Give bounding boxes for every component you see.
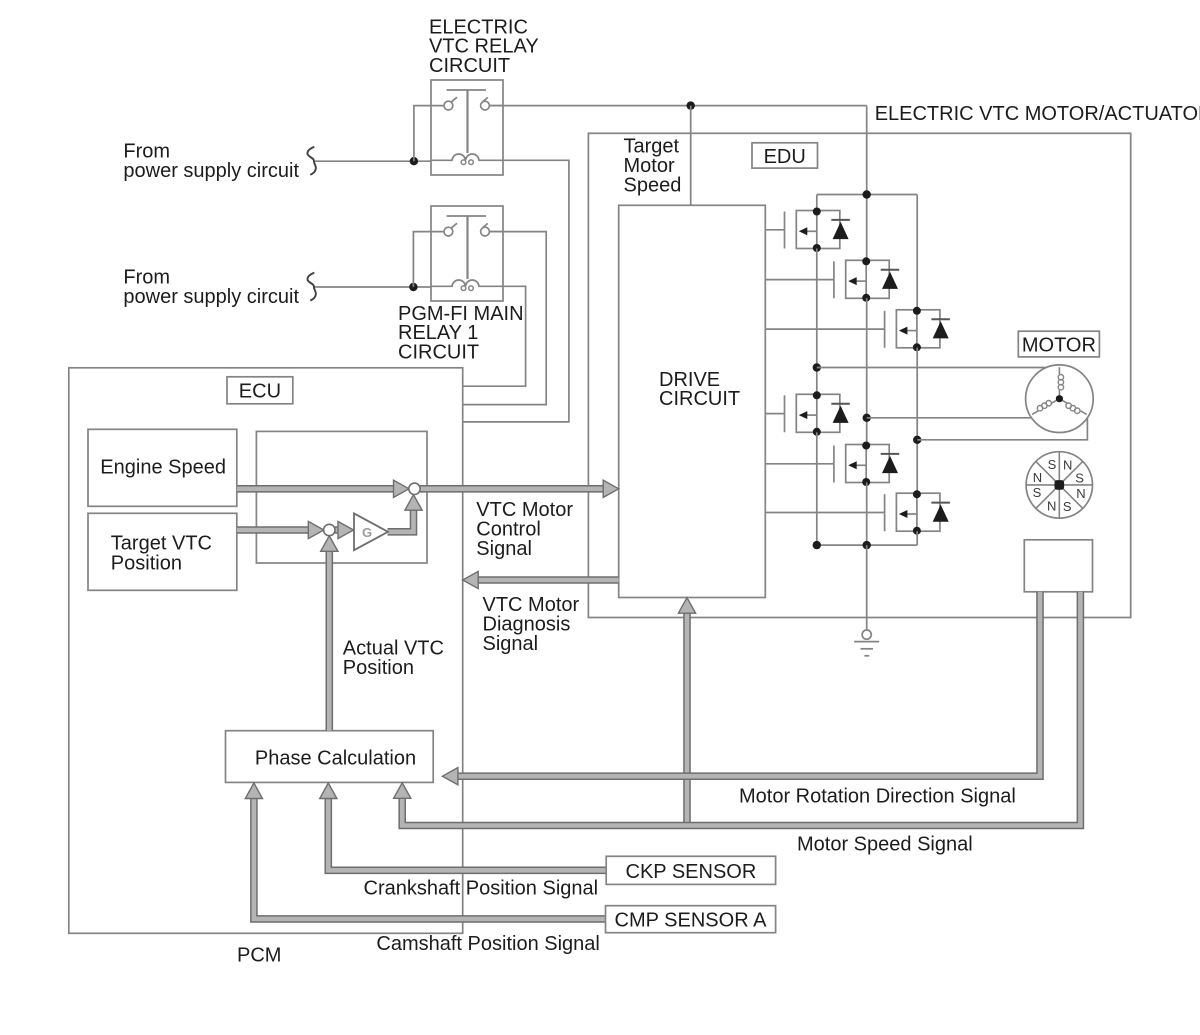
svg-text:Engine Speed: Engine Speed: [100, 457, 226, 479]
relay R2 (PGM-FI MAIN RELAY 1) contact right: [481, 227, 490, 236]
transistor Q6 gate bar: [884, 494, 886, 531]
node: supply 1 junction dot: [410, 157, 418, 165]
Target VTC Position box: [88, 513, 237, 590]
rotor magnet spokes: [1026, 484, 1092, 486]
op-amp G (gain block): [354, 513, 388, 550]
thick arrow: motor speed signal to phase calculation: [402, 592, 1080, 826]
svg-text:Motor Rotation Direction Signa: Motor Rotation Direction Signal: [739, 785, 1016, 807]
transistor Q2 gate lead: [765, 279, 834, 281]
thick arrow: camshaft position signal: [254, 798, 606, 919]
node: supply 2 junction dot: [409, 283, 417, 291]
transistor Q4 gate bar: [784, 395, 786, 432]
thick arrow: summing node 2 to gain amp: [335, 526, 341, 534]
transistor Q3 gate lead: [765, 328, 884, 330]
wire: relay 2 contact output to ECU: [463, 232, 547, 405]
wire: inverter top rail: [817, 194, 917, 196]
transistor Q5 source dot: [862, 478, 870, 486]
svg-text:CIRCUIT: CIRCUIT: [429, 55, 510, 77]
transistor Q4 source dot: [813, 428, 821, 436]
wire: bottom rail to ground: [866, 545, 868, 630]
svg-text:Motor Speed Signal: Motor Speed Signal: [797, 833, 973, 855]
thick arrow: motor rotation direction signal: [458, 592, 1041, 776]
svg-text:G: G: [362, 525, 372, 540]
diode D6 (body diode of Q6): [931, 502, 950, 504]
relay R1 (ELECTRIC VTC RELAY) contact output wire stub: [489, 105, 503, 107]
svg-text:S: S: [1075, 470, 1084, 485]
svg-text:MOTOR: MOTOR: [1022, 334, 1096, 356]
thick arrow: Target VTC Position to summing node 2: [237, 526, 309, 534]
diode D3 (body diode of Q3): [931, 318, 950, 320]
relay R1 (ELECTRIC VTC RELAY) armature stem: [466, 90, 468, 153]
svg-text:power supply circuit: power supply circuit: [123, 160, 299, 182]
rotor magnet hub: [1055, 480, 1065, 490]
diode D5 (body diode of Q5): [881, 453, 900, 455]
DRIVE CIRCUIT box: [619, 205, 766, 597]
relay R1 (ELECTRIC VTC RELAY) box: [431, 80, 503, 175]
svg-text:power supply circuit: power supply circuit: [123, 286, 299, 308]
wire: phase U to motor: [817, 367, 1046, 369]
transistor Q2 source dot: [862, 294, 870, 302]
motor M winding circle: [1026, 365, 1094, 433]
wire: Q5 source down to bottom rail: [866, 483, 868, 546]
transistor Q1 gate lead: [765, 229, 784, 231]
svg-text:CIRCUIT: CIRCUIT: [398, 342, 479, 364]
thick arrow: VTC motor diagnosis signal: [478, 576, 619, 584]
diode D1 (body diode of Q1): [831, 219, 850, 221]
thick arrow: actual VTC position up to summing node 2: [325, 550, 333, 731]
wire: rail to Q1 drain: [816, 195, 818, 211]
svg-text:Position: Position: [343, 657, 414, 679]
relay R2 (PGM-FI MAIN RELAY 1) contact output wire stub: [489, 231, 503, 233]
wire: phase W to motor: [917, 418, 1087, 440]
wire: rail to Q3 drain: [916, 195, 918, 310]
break symbol (supply 2): [307, 273, 315, 301]
transistor Q4 gate lead: [765, 413, 784, 415]
motor M windings (3-phase Y): [1058, 367, 1060, 399]
summing node 1: [409, 483, 420, 494]
svg-text:N: N: [1047, 499, 1056, 514]
wire: supply 1 horizontal into relay 1 coil: [314, 160, 452, 162]
PCM / ECU outer box: [69, 368, 463, 934]
relay R2 (PGM-FI MAIN RELAY 1) coil: [431, 280, 503, 286]
transistor Q4 drain dot: [813, 391, 821, 399]
node: phase U junction dot: [813, 363, 821, 371]
relay R1 (ELECTRIC VTC RELAY) pigtail wire (contact to supply node): [414, 106, 444, 162]
transistor Q5 gate lead: [765, 463, 834, 465]
wire: inverter bottom rail: [817, 544, 917, 546]
transistor Q1 gate bar: [784, 212, 786, 249]
relay R1 (ELECTRIC VTC RELAY) contact right: [481, 101, 490, 110]
svg-text:EDU: EDU: [764, 146, 806, 168]
Engine Speed box: [88, 429, 237, 506]
ground: [862, 630, 871, 639]
svg-text:Crankshaft Position Signal: Crankshaft Position Signal: [364, 877, 599, 899]
CMP SENSOR A box: [606, 906, 776, 933]
wire: target motor speed feed down into drive circuit: [690, 106, 692, 206]
svg-text:Signal: Signal: [476, 538, 532, 560]
svg-text:S: S: [1033, 485, 1042, 500]
node: bottom rail dot left: [813, 541, 821, 549]
transistor Q6 source dot: [913, 527, 921, 535]
transistor Q1 body: [796, 211, 840, 249]
CKP SENSOR box: [606, 856, 775, 884]
thick arrow: crankshaft position signal: [328, 798, 606, 870]
transistor Q5 body: [846, 445, 890, 483]
motor M center node: [1056, 395, 1063, 402]
wire: relay 1 contact output to inverter feed: [490, 105, 867, 107]
Phase Calculation box: [226, 731, 434, 783]
summing node 2: [324, 524, 335, 535]
relay R2 (PGM-FI MAIN RELAY 1) armature bar: [447, 215, 486, 217]
thick arrow: Engine Speed to summing node: [237, 485, 394, 493]
ELECTRIC VTC MOTOR/ACTUATOR outer box: [588, 133, 1130, 617]
svg-text:Position: Position: [111, 553, 182, 575]
node: dot on top rail: [863, 190, 871, 198]
thick arrow: motor speed branch up into drive circuit: [683, 613, 691, 826]
relay R1 (ELECTRIC VTC RELAY) contact left: [444, 101, 453, 110]
transistor Q6 body: [896, 493, 940, 531]
svg-text:N: N: [1033, 470, 1042, 485]
svg-text:Speed: Speed: [624, 175, 682, 197]
node: bottom rail dot mid: [863, 541, 871, 549]
wire: Q3 source to Q6 drain: [916, 348, 918, 493]
thick wire: VTC motor control signal: [420, 485, 604, 493]
svg-text:From: From: [123, 267, 170, 289]
label box EDU: [752, 143, 818, 168]
transistor Q5 drain dot: [862, 442, 870, 450]
transistor Q5 gate bar: [833, 446, 835, 483]
svg-text:Phase Calculation: Phase Calculation: [255, 748, 416, 770]
diode D2 (body diode of Q2): [881, 269, 900, 271]
svg-text:S: S: [1063, 499, 1072, 514]
position sensor box: [1024, 540, 1092, 592]
svg-text:N: N: [1076, 486, 1085, 501]
transistor Q6 gate lead: [765, 512, 884, 514]
transistor Q1 source dot: [813, 244, 821, 252]
wire: supply 2 horizontal into relay 2 coil: [314, 286, 452, 288]
transistor Q1 drain dot: [813, 208, 821, 216]
transistor Q2 gate bar: [833, 261, 835, 298]
svg-text:PCM: PCM: [237, 945, 281, 967]
svg-text:CMP SENSOR A: CMP SENSOR A: [615, 910, 768, 932]
wire: Q2 source to Q5 drain: [866, 298, 868, 444]
svg-text:ELECTRIC VTC MOTOR/ACTUATOR: ELECTRIC VTC MOTOR/ACTUATOR: [875, 103, 1200, 125]
ECU inner control box: [256, 431, 427, 563]
relay R1 (ELECTRIC VTC RELAY) armature bar: [447, 89, 486, 91]
wire: Q6 source down to bottom rail: [916, 531, 918, 545]
transistor Q3 body: [896, 310, 940, 348]
svg-text:Target VTC: Target VTC: [111, 533, 212, 555]
svg-text:ECU: ECU: [239, 380, 281, 402]
wire: Q4 source down to bottom rail: [816, 432, 818, 545]
svg-text:CIRCUIT: CIRCUIT: [659, 388, 740, 410]
node: junction dot on relay 1 output: [687, 101, 695, 109]
transistor Q3 source dot: [913, 343, 921, 351]
transistor Q2 drain dot: [862, 257, 870, 265]
svg-text:Camshaft Position Signal: Camshaft Position Signal: [376, 933, 599, 955]
diode D4 (body diode of Q4): [831, 403, 850, 405]
relay R2 (PGM-FI MAIN RELAY 1) armature stem: [466, 216, 468, 279]
node: phase V junction dot: [863, 414, 871, 422]
transistor Q3 drain dot: [913, 307, 921, 315]
label box MOTOR: [1018, 331, 1099, 357]
svg-text:N: N: [1063, 458, 1072, 473]
transistor Q4 body: [796, 394, 840, 432]
thick wire: gain amp output up to summing node 1: [388, 510, 414, 532]
rotor magnet circle: [1026, 452, 1092, 518]
svg-text:Signal: Signal: [483, 633, 539, 655]
transistor Q6 drain dot: [913, 490, 921, 498]
svg-text:CKP SENSOR: CKP SENSOR: [626, 861, 757, 883]
transistor Q2 body: [846, 260, 890, 298]
label box ECU: [227, 377, 293, 404]
wire: relay 2 coil output to ECU: [463, 286, 526, 386]
svg-text:S: S: [1048, 457, 1057, 472]
relay R2 (PGM-FI MAIN RELAY 1) contact left: [444, 227, 453, 236]
wire: Q1 source to Q4 drain: [816, 249, 818, 395]
node: phase W junction dot: [913, 436, 921, 444]
wire: relay 1 coil output to ECU: [463, 160, 569, 422]
break symbol (supply 1): [307, 147, 315, 175]
relay R1 (ELECTRIC VTC RELAY) coil: [431, 154, 503, 160]
svg-text:From: From: [123, 141, 170, 163]
relay R2 (PGM-FI MAIN RELAY 1) box: [431, 206, 503, 301]
relay R2 (PGM-FI MAIN RELAY 1) pigtail wire (contact to supply node): [413, 232, 444, 287]
wire: main feed down to inverter: [866, 106, 868, 261]
transistor Q3 gate bar: [884, 311, 886, 348]
wire: phase V to motor: [867, 417, 1032, 419]
